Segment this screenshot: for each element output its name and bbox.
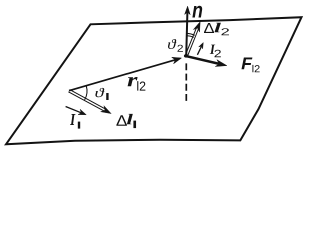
label Δl2	[204, 23, 214, 33]
label F12	[242, 58, 253, 70]
force vector F12	[187, 56, 227, 66]
dashed line (projection below junction)	[185, 63, 187, 101]
vector Δl1 (current element 1, double-line shaft)	[68, 90, 111, 114]
vector r12 (from element 1 to element 2)	[69, 57, 182, 90]
angle arc θ1	[85, 86, 87, 100]
label r12	[128, 77, 138, 86]
label I1	[70, 114, 76, 125]
plane (parallelogram outline)	[6, 17, 302, 144]
vector n (normal to plane)	[185, 6, 191, 56]
vector Δl2 (current element 2, double-line shaft)	[185, 22, 200, 57]
angle arc θ2 (double stroke)	[186, 33, 195, 37]
current arrow I1	[66, 107, 87, 115]
current arrow I2	[197, 43, 203, 55]
label Δl1	[116, 115, 127, 126]
label n	[192, 6, 202, 18]
label I2	[210, 45, 215, 54]
label θ1	[95, 88, 104, 97]
label θ2	[168, 39, 176, 49]
junction node (element 2 location)	[184, 54, 189, 57]
